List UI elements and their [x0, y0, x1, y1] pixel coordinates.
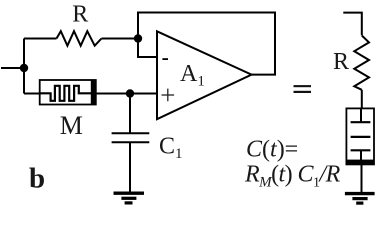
wire feedback loop	[138, 13, 275, 75]
wire node to memristor	[24, 93, 40, 95]
capacitor C1 bottom plate	[112, 141, 150, 143]
op-amp plus sign	[162, 89, 175, 102]
svg-text:RM(t) C1/R: RM(t) C1/R	[244, 162, 341, 191]
svg-text:M: M	[60, 111, 83, 140]
node B junction dot	[126, 89, 134, 97]
ground right	[345, 194, 375, 204]
svg-text:C1: C1	[159, 134, 183, 163]
wire noninverting input	[130, 93, 157, 95]
wire input stub left	[1, 67, 24, 69]
svg-text:C(t)=: C(t)=	[246, 137, 298, 163]
wire resistor to memcapacitor	[361, 90, 363, 109]
memcapacitor plate 3	[351, 149, 371, 151]
node feedback junction dot	[134, 34, 142, 42]
equals sign	[294, 85, 312, 93]
memcapacitor polarity bar	[346, 160, 374, 165]
memcapacitor body	[346, 108, 374, 164]
wire to resistor R	[24, 38, 57, 40]
wire memristor to node B	[96, 93, 130, 95]
wire resistor to node	[102, 38, 139, 40]
wire left vertical	[23, 39, 25, 94]
svg-text:b: b	[29, 162, 45, 194]
memristor M square wave	[40, 86, 92, 101]
ground left	[114, 193, 145, 203]
memcapacitor top lead	[360, 108, 362, 122]
memristor M body	[40, 80, 96, 105]
wire inverting input	[138, 39, 157, 58]
wire capacitor to ground	[129, 142, 131, 192]
svg-text:R: R	[333, 49, 349, 75]
wire memcapacitor to ground	[361, 164, 363, 192]
svg-text:R: R	[72, 2, 88, 28]
memcapacitor inner lead	[360, 150, 362, 160]
wire node B to capacitor C1	[129, 94, 131, 134]
memristor M polarity bar	[91, 80, 96, 105]
resistor R right	[354, 36, 369, 90]
memcapacitor plate 2	[351, 136, 371, 138]
op-amp minus sign	[162, 58, 168, 60]
resistor R	[57, 31, 102, 46]
memcapacitor plate 1	[351, 121, 371, 123]
capacitor C1 top plate	[112, 132, 150, 134]
wire right top stub	[343, 13, 362, 36]
op-amp U1 triangle	[157, 31, 252, 119]
node A junction dot	[20, 64, 28, 72]
